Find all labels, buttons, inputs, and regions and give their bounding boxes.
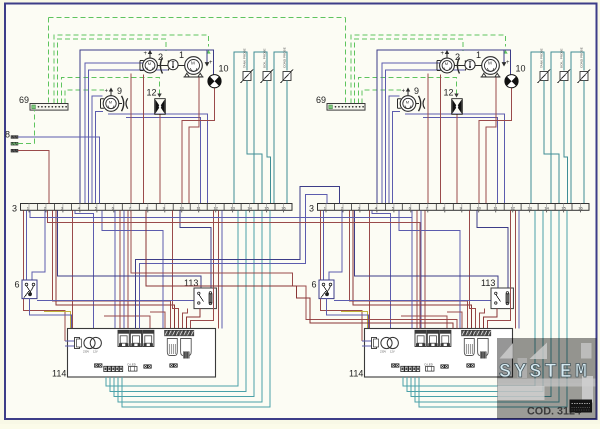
svg-text:SYSTEM: SYSTEM: [499, 361, 590, 384]
svg-text:8: 8: [5, 130, 10, 140]
